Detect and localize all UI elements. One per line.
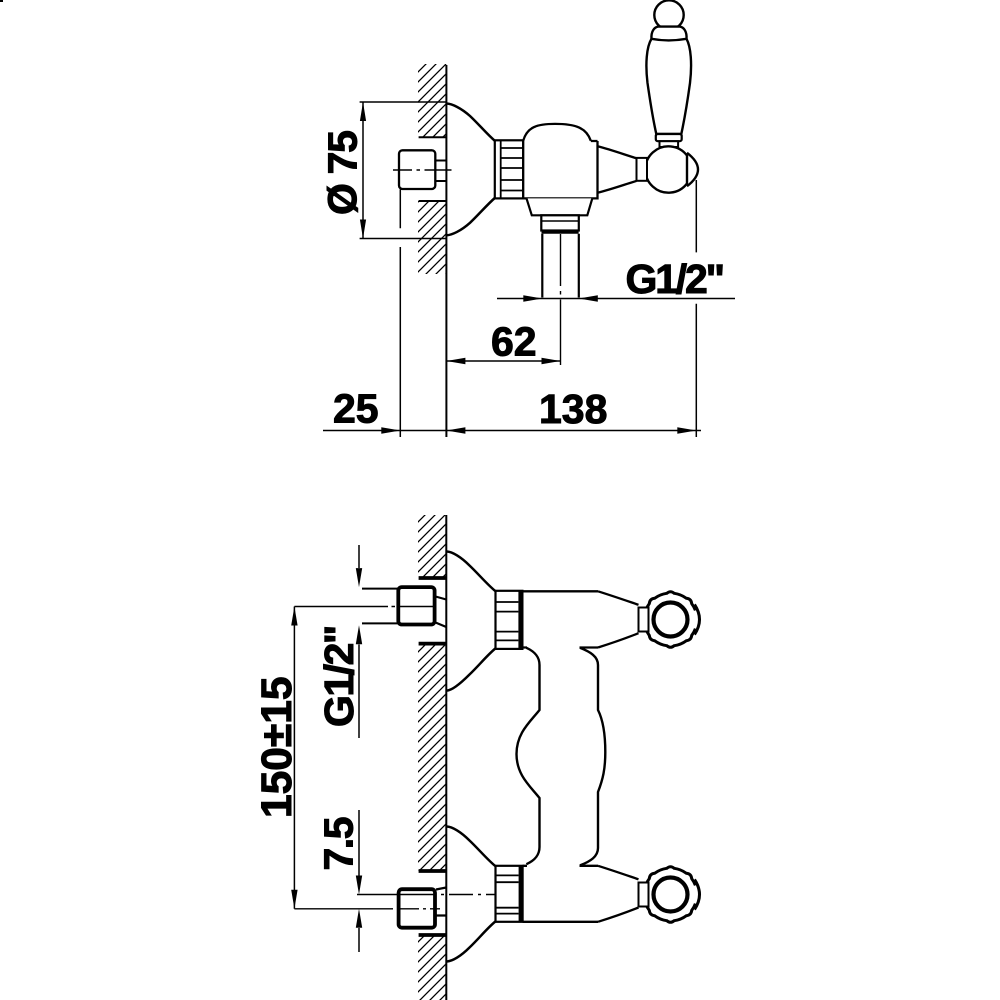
wall hatch chunk 3 [418, 935, 446, 1000]
escutcheon bell fill [447, 104, 495, 236]
lower nut centerline + 150 ext (y908.8) [294, 908, 440, 910]
upper nut neck lines [436, 597, 447, 628]
handle ball [645, 146, 687, 192]
wall hatch chunk 1 [418, 515, 446, 578]
handle cone [598, 146, 637, 193]
dim G1/2 leader [358, 545, 360, 738]
upper tube [522, 591, 598, 647]
lower nut neck lines [436, 888, 446, 916]
bell fill lower [447, 827, 496, 962]
lever shaft [646, 39, 691, 134]
bell outline lower [447, 827, 496, 962]
lever neck [660, 141, 679, 147]
dim 7.5 leader [358, 810, 360, 952]
nut neck lines [435, 161, 446, 182]
lever collar ring [651, 27, 686, 41]
upper nut (bold) [398, 587, 434, 624]
wall hole lower edge [419, 200, 447, 202]
upper cone + stem [598, 591, 639, 647]
lower tube [523, 866, 598, 922]
collar upper [496, 591, 523, 649]
pipe centerline [560, 234, 562, 365]
svg-text:G1/2": G1/2" [626, 256, 723, 302]
wall hole edges (bold) [419, 578, 447, 935]
collar lower [496, 866, 523, 922]
corner artifact mark [0, 0, 3, 2]
bell fill upper [447, 552, 496, 691]
svg-text:Ø 75: Ø 75 [320, 131, 366, 215]
dim G1/2 line (pipe) [497, 298, 735, 300]
upper centerline + 150 ext (y606.5) [294, 606, 434, 608]
lever top bulb [654, 0, 683, 29]
svg-text:G1/2": G1/2" [316, 626, 362, 727]
lower tube centerline (y894.5) [357, 894, 506, 896]
threaded collar [495, 140, 523, 198]
svg-text:138: 138 [539, 386, 607, 432]
outlet pipe [542, 234, 579, 298]
nut centerline [393, 169, 452, 171]
upper knob [644, 592, 700, 648]
dim Ø75 line [362, 102, 364, 239]
wall face line [445, 65, 447, 437]
svg-text:25: 25 [333, 386, 379, 432]
svg-text:150±15: 150±15 [254, 676, 301, 818]
dim Ø75 extension lines [360, 102, 447, 239]
extension line nut left [399, 189, 401, 437]
wall hole upper edge [419, 136, 447, 138]
wall hatch lower chunk [418, 201, 446, 274]
pipe coupling [541, 215, 579, 230]
svg-text:7.5: 7.5 [316, 817, 362, 870]
lower nut (bold) [399, 889, 435, 928]
bell outline upper [447, 552, 496, 691]
lower knob [644, 867, 700, 923]
lever step ring [656, 134, 682, 141]
wall face line [445, 515, 447, 1000]
body shoulder [527, 198, 593, 215]
central body left edge [517, 648, 540, 864]
dim 62 line [446, 360, 560, 362]
wall hatch chunk 2 [418, 644, 446, 871]
wall supply nut [399, 150, 435, 189]
central body right edge [580, 648, 605, 866]
escutcheon bell outline [447, 104, 495, 236]
handle stem [637, 158, 648, 181]
supply pipe upper [362, 589, 398, 624]
bottom dim line 25 / 138 [323, 430, 701, 432]
ball end cap [687, 153, 698, 186]
dim 150±15 line [293, 607, 295, 909]
lower cone + stem [598, 866, 639, 922]
extension line handle right [695, 180, 697, 437]
valve body [523, 124, 597, 198]
svg-text:62: 62 [491, 319, 537, 365]
wall hatch upper chunk [418, 64, 446, 137]
